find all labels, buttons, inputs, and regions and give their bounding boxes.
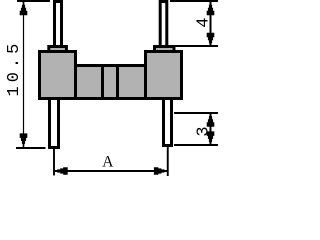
body left end cap	[40, 52, 76, 99]
svg-text:A: A	[102, 154, 114, 171]
middle divider 2	[116, 64, 119, 100]
dimension A left arrow	[54, 167, 67, 175]
top-left pin	[55, 2, 62, 50]
dimension 3 bottom extension line	[174, 144, 218, 146]
dimension 4 top arrow	[207, 2, 215, 16]
svg-text:10.5: 10.5	[5, 40, 24, 97]
dimension 3 line	[210, 114, 212, 145]
dimension A left extension line	[53, 149, 55, 176]
top-right pin	[160, 2, 167, 50]
dimension 4 bottom extension line	[175, 45, 218, 47]
svg-text:3: 3	[195, 126, 214, 136]
dimension A right arrow	[154, 167, 168, 175]
svg-text:4: 4	[195, 18, 214, 28]
left pin collar	[49, 47, 67, 55]
dimension 10.5 bottom arrow	[20, 133, 28, 147]
dimension A line	[55, 170, 168, 172]
bottom-left pin	[50, 98, 59, 148]
dimension 4 top extension line	[170, 0, 218, 2]
dimension 10.5 top extension line	[17, 0, 50, 2]
dimension 10.5 top arrow	[20, 2, 28, 16]
dimension 4 line	[210, 2, 212, 46]
dimension 3 top arrow	[207, 113, 215, 127]
body middle section	[76, 66, 146, 99]
dimension 3 bottom arrow	[207, 131, 215, 145]
dimension A right extension line	[167, 147, 169, 176]
right pin collar	[155, 47, 175, 55]
dimension 4 bottom arrow	[207, 33, 215, 47]
middle divider 1	[101, 64, 104, 100]
dimension 10.5 bottom extension line	[16, 147, 46, 149]
bottom-right pin	[164, 98, 172, 146]
body right end cap	[146, 52, 182, 99]
dimension 3 top extension line	[174, 112, 218, 114]
dimension 10.5 line	[23, 2, 25, 147]
